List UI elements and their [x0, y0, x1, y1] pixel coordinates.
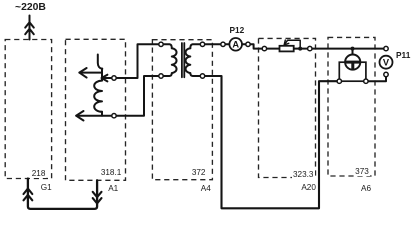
- svg-text:V: V: [383, 58, 390, 68]
- svg-text:A: A: [232, 40, 239, 50]
